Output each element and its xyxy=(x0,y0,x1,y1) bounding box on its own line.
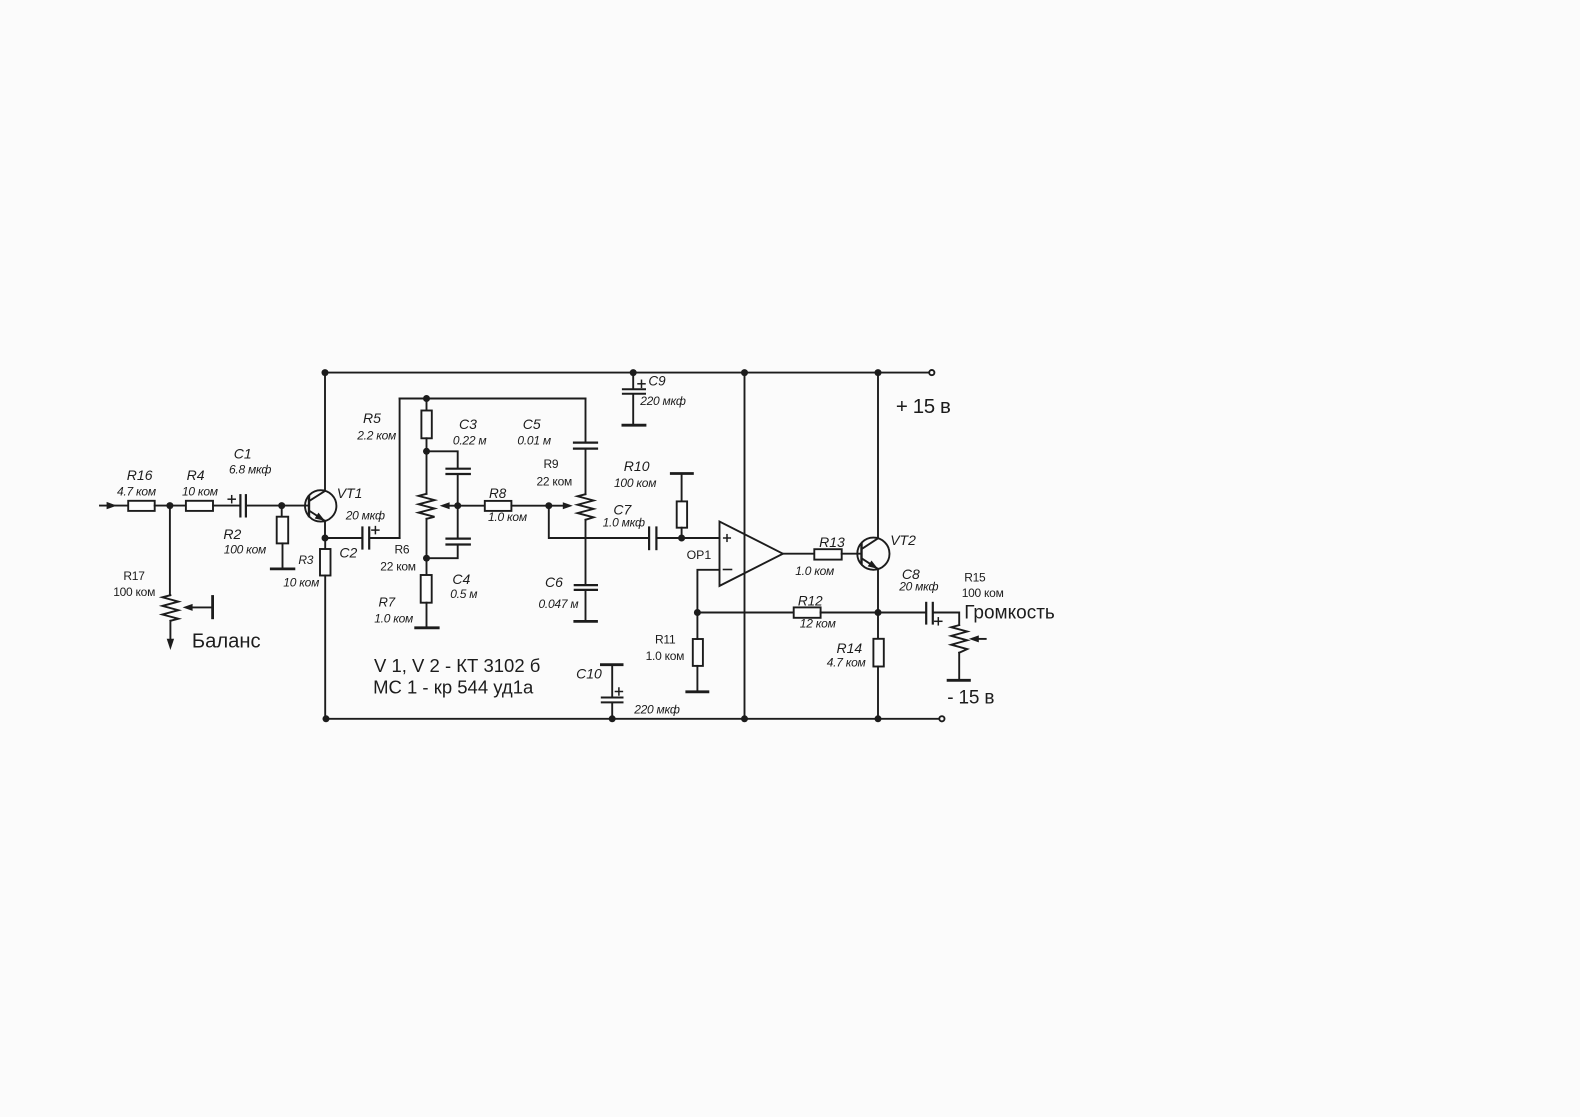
capacitor C4 xyxy=(447,537,470,539)
wire rail2 corner down to C5 xyxy=(585,399,587,443)
svg-text:2.2 ком: 2.2 ком xyxy=(356,429,396,443)
capacitor C10 xyxy=(601,663,622,666)
wire R8 node down and right to C7 xyxy=(549,506,649,538)
R9 wiper arrow xyxy=(549,505,565,507)
svg-text:C10: C10 xyxy=(576,666,602,682)
svg-text:0.5 м: 0.5 м xyxy=(450,587,477,601)
node C1-R2 junction xyxy=(278,502,285,509)
svg-text:МС 1 - кр 544 уд1а: МС 1 - кр 544 уд1а xyxy=(373,677,534,698)
ground below R2 xyxy=(271,568,294,571)
wire emitter node to C8 xyxy=(878,612,926,614)
svg-text:4.7 ком: 4.7 ком xyxy=(117,485,156,499)
ground bar above R10 xyxy=(671,472,692,475)
wire C5 to R9 xyxy=(585,449,587,494)
ground below C6 xyxy=(575,620,597,623)
R17 wiper terminal bar xyxy=(211,597,214,618)
svg-text:100 ком: 100 ком xyxy=(113,585,155,599)
svg-text:C2: C2 xyxy=(339,545,357,561)
wire R8 to R9 node xyxy=(511,505,548,507)
node top rail VT2 xyxy=(875,369,882,376)
wire bottom rail xyxy=(325,718,939,720)
op-amp U1 xyxy=(720,522,783,586)
svg-text:R12: R12 xyxy=(798,594,823,609)
wire VT1 collector up xyxy=(324,373,326,491)
wire R15 to -15v bar xyxy=(958,653,960,679)
capacitor C5 xyxy=(574,442,597,444)
ground below R7 xyxy=(416,626,439,629)
wire R4 to C1 xyxy=(213,505,240,507)
svg-text:R3: R3 xyxy=(298,553,313,567)
svg-text:0.22 м: 0.22 м xyxy=(453,434,486,448)
svg-text:R7: R7 xyxy=(379,595,396,610)
svg-text:C9: C9 xyxy=(648,373,666,388)
wire input line xyxy=(100,505,128,507)
resistor R8 xyxy=(485,501,512,511)
node input junction xyxy=(166,502,173,509)
wire C1 to VT1 base xyxy=(246,505,309,507)
resistor R16 xyxy=(128,501,155,511)
svg-text:C5: C5 xyxy=(523,416,541,432)
wire C6 to ground xyxy=(585,590,587,620)
wire VT2 collector up xyxy=(877,373,879,539)
svg-text:1.0 ком: 1.0 ком xyxy=(795,564,834,578)
resistor R5 xyxy=(421,411,431,439)
svg-text:R16: R16 xyxy=(127,467,153,483)
svg-text:VT2: VT2 xyxy=(890,532,916,548)
wire R12 row right xyxy=(821,612,878,614)
svg-text:100 ком: 100 ком xyxy=(962,586,1004,600)
transistor Q2 VT2 xyxy=(857,538,889,570)
wire R5 top stub xyxy=(426,399,428,411)
node VT2 emitter junction xyxy=(875,609,882,616)
svg-text:220 мкф: 220 мкф xyxy=(633,703,680,717)
svg-text:220 мкф: 220 мкф xyxy=(639,394,686,408)
svg-text:0.01 м: 0.01 м xyxy=(517,434,550,448)
wire R16 to R4 xyxy=(155,505,186,507)
svg-text:10 ком: 10 ком xyxy=(182,485,218,499)
node rail2 R5 junction xyxy=(423,395,430,402)
wire C2 to rail2 xyxy=(370,537,400,539)
node R6-R7 junction xyxy=(423,555,430,562)
node bottom rail C10 xyxy=(609,715,616,722)
svg-text:R9: R9 xyxy=(544,457,559,471)
terminal -15v bar xyxy=(948,679,969,682)
svg-text:22 ком: 22 ком xyxy=(380,559,416,573)
svg-text:R2: R2 xyxy=(223,526,241,542)
node R6 wiper junction xyxy=(454,502,461,509)
wire R14 to bottom rail xyxy=(877,667,879,719)
resistor R14 xyxy=(873,639,883,667)
svg-text:R15: R15 xyxy=(964,570,986,584)
svg-text:C4: C4 xyxy=(452,571,470,587)
wire rail2 xyxy=(400,398,586,400)
svg-text:Баланс: Баланс xyxy=(192,630,261,652)
terminal +15v xyxy=(929,370,934,375)
svg-text:C3: C3 xyxy=(459,416,477,432)
svg-text:R11: R11 xyxy=(655,633,676,647)
resistor R11 xyxy=(693,639,703,666)
input arrow xyxy=(107,502,117,509)
wire top rail xyxy=(325,372,929,374)
wire R2 stub xyxy=(281,506,283,517)
R17 wiper arrow xyxy=(183,604,193,611)
terminal -15v rail xyxy=(939,716,944,721)
wire VT2 emitter to R14 xyxy=(877,613,879,639)
node bottom rail left xyxy=(323,715,330,722)
svg-text:100 ком: 100 ком xyxy=(224,543,266,557)
wire VT2 emitter down xyxy=(877,569,879,613)
svg-text:R10: R10 xyxy=(624,458,650,474)
svg-text:R17: R17 xyxy=(123,569,145,583)
resistor R7 xyxy=(421,575,432,603)
wire R13 to VT2 base xyxy=(842,553,862,555)
wire C4 bottom to R6-R7 junction xyxy=(427,545,458,559)
capacitor C8 xyxy=(925,603,927,624)
svg-text:R13: R13 xyxy=(819,534,845,550)
svg-text:1.0 ком: 1.0 ком xyxy=(488,510,527,524)
svg-text:+ 15 в: + 15 в xyxy=(896,395,951,418)
capacitor C6 xyxy=(575,584,597,586)
node top rail op-amp power xyxy=(741,369,748,376)
wire C7 to op-amp xyxy=(657,537,720,539)
wire R7 to ground xyxy=(426,603,428,627)
wire R9 to C6 xyxy=(585,520,587,585)
wire op-amp output xyxy=(783,553,814,555)
wire C8 to R15 xyxy=(933,613,959,626)
svg-text:C6: C6 xyxy=(545,574,563,590)
wire op-amp power vertical xyxy=(744,373,746,719)
capacitor C9 xyxy=(632,373,634,389)
wire wiper to R8 xyxy=(458,505,485,507)
svg-text:10 ком: 10 ком xyxy=(283,575,319,589)
ground below R11 xyxy=(687,690,708,693)
wire R2 to ground xyxy=(282,543,284,567)
svg-text:VT1: VT1 xyxy=(337,485,363,501)
svg-text:1.0 мкф: 1.0 мкф xyxy=(603,516,645,530)
svg-text:4.7 ком: 4.7 ком xyxy=(827,656,866,670)
resistor R10 xyxy=(681,475,683,502)
svg-text:1.0 ком: 1.0 ком xyxy=(646,649,685,663)
wire R5 bottom xyxy=(426,438,428,451)
svg-text:R4: R4 xyxy=(187,467,205,483)
pot R17 wire down xyxy=(169,506,171,596)
pot R6 wire top xyxy=(426,451,428,494)
capacitor C2 xyxy=(325,537,362,539)
svg-text:1.0 ком: 1.0 ком xyxy=(374,612,413,626)
wire VT1 emitter down xyxy=(324,521,326,538)
pot R17 zigzag xyxy=(162,595,178,621)
svg-text:0.047 м: 0.047 м xyxy=(539,597,579,611)
resistor R13 xyxy=(814,549,841,559)
wire R3 to bottom rail xyxy=(324,576,326,719)
resistor R2 xyxy=(277,517,289,544)
node minus-R11-R12 junction xyxy=(694,609,701,616)
svg-text:R5: R5 xyxy=(363,410,381,426)
svg-text:20 мкф: 20 мкф xyxy=(898,580,938,594)
resistor R12 xyxy=(794,607,821,617)
capacitor C1 xyxy=(239,495,241,516)
wire junction to C3 column xyxy=(427,451,458,468)
capacitor C3 xyxy=(447,468,470,470)
node top rail C9 xyxy=(630,369,637,376)
R15 wiper arrow xyxy=(969,635,979,642)
svg-text:V 1, V 2 - КТ 3102 б: V 1, V 2 - КТ 3102 б xyxy=(374,655,540,676)
node bottom rail op-amp power xyxy=(741,715,748,722)
svg-text:Громкость: Громкость xyxy=(964,603,1055,624)
svg-text:R8: R8 xyxy=(489,486,507,501)
pot R6 zigzag xyxy=(419,494,435,519)
capacitor C7 xyxy=(648,528,650,550)
svg-text:C1: C1 xyxy=(234,445,252,461)
svg-text:12 ком: 12 ком xyxy=(800,617,836,631)
svg-text:20 мкф: 20 мкф xyxy=(345,509,385,523)
pot R6 wire bottom xyxy=(426,519,428,558)
wire R12 row left xyxy=(697,612,793,614)
ground below C9 xyxy=(623,424,645,427)
node bottom rail R14 xyxy=(875,715,882,722)
resistor R3 xyxy=(320,549,331,576)
pot R9 zigzag xyxy=(578,494,594,520)
wire op-amp minus input xyxy=(697,570,719,613)
wire emitter to R3 xyxy=(324,538,326,549)
R17 down arrow to Баланс xyxy=(169,621,171,639)
transistor VT1 xyxy=(305,490,336,521)
node R5-R6 junction xyxy=(423,448,430,455)
svg-text:R14: R14 xyxy=(837,640,863,656)
node top rail left xyxy=(322,369,329,376)
svg-text:6.8 мкф: 6.8 мкф xyxy=(229,463,271,477)
node VT1 emitter junction xyxy=(322,535,329,542)
svg-text:OP1: OP1 xyxy=(687,548,712,562)
svg-text:R6: R6 xyxy=(395,543,410,557)
wire R7 stub xyxy=(426,558,428,575)
node R8-R9 junction xyxy=(545,502,552,509)
pot R15 zigzag xyxy=(951,625,967,653)
R6 wiper arrow xyxy=(440,502,450,509)
svg-text:22 ком: 22 ком xyxy=(537,474,573,488)
node R10 junction xyxy=(678,535,685,542)
svg-text:100 ком: 100 ком xyxy=(614,476,656,490)
wire C3 to wiper node xyxy=(457,474,459,538)
svg-text:- 15 в: - 15 в xyxy=(947,688,994,709)
resistor R4 xyxy=(186,501,213,511)
